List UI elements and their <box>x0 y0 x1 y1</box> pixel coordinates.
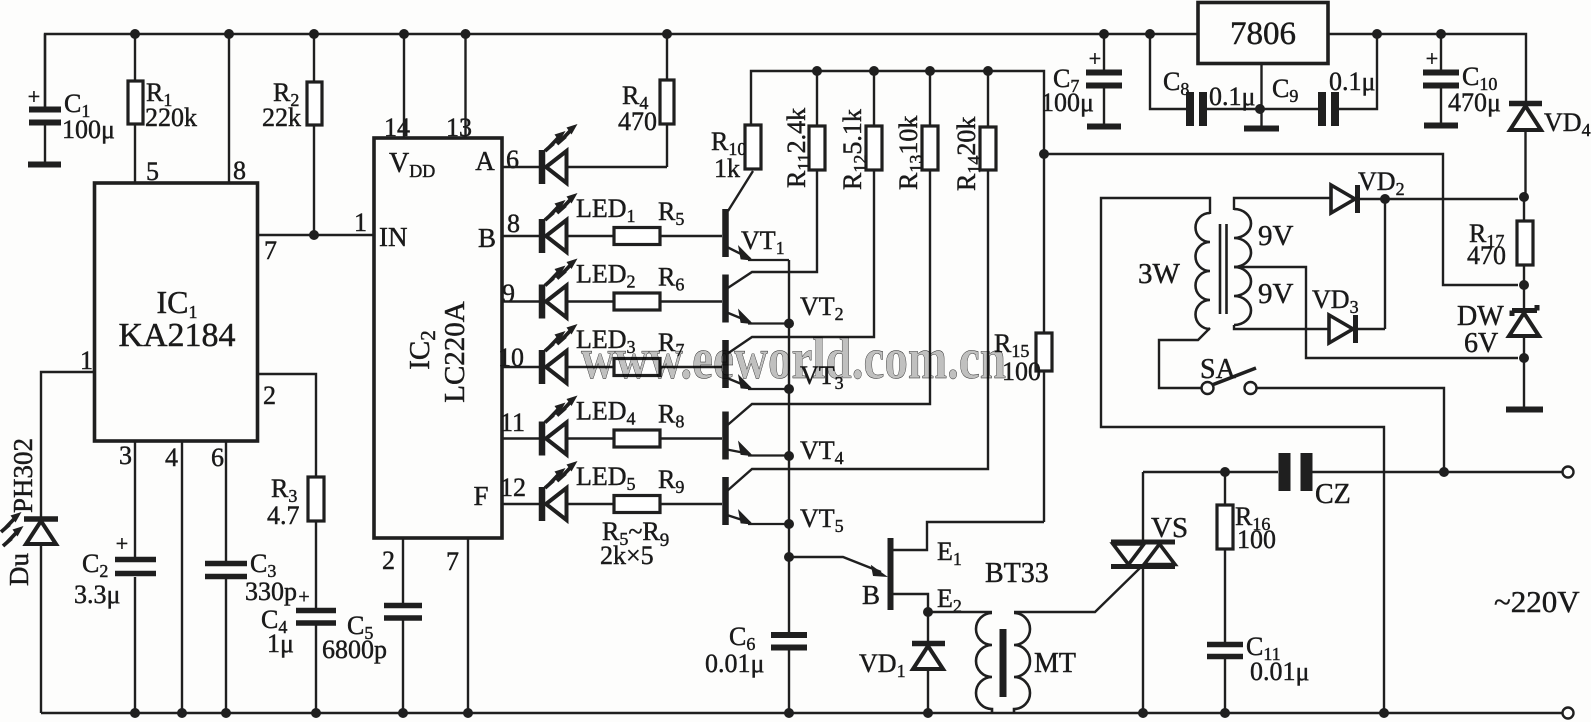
wire common emitter line of VT1-VT5 <box>784 260 794 632</box>
pin 2 of IC1 <box>263 381 276 410</box>
wire IC2 pin14 to top rail <box>403 34 405 138</box>
diode VD1 <box>859 607 945 713</box>
wire R15 rail to R17/DW node <box>1044 154 1518 285</box>
wire IC2 pin7 to ground rail <box>467 538 469 713</box>
svg-text:4: 4 <box>165 443 178 472</box>
wire IC1 pin2 to R3 <box>258 374 316 477</box>
pin 7 of IC2 <box>446 547 459 576</box>
svg-text:+: + <box>1089 46 1101 71</box>
resistor R11 2.4k <box>782 71 825 188</box>
resistor R9 <box>567 465 723 513</box>
capacitor C1 100u electrolytic <box>28 34 115 165</box>
LED LED1 <box>502 193 636 253</box>
wire resistor bank supply rail <box>751 66 1044 154</box>
svg-text:220k: 220k <box>145 103 197 132</box>
resistor R14 20k <box>952 71 996 191</box>
pin 6 of IC1 <box>211 443 224 472</box>
diode VD2 <box>1331 167 1518 213</box>
svg-text:IN: IN <box>379 222 408 252</box>
label R5~R9 2k x5 <box>600 517 669 570</box>
capacitor C7 100u electrolytic <box>1041 34 1122 127</box>
svg-text:R1310k: R1310k <box>894 116 926 190</box>
resistor R1 220k <box>128 34 197 183</box>
svg-text:22k: 22k <box>262 103 301 132</box>
transformer core <box>1220 224 1227 314</box>
wire IC1 pin4 to ground rail <box>181 441 183 713</box>
svg-text:7806: 7806 <box>1230 16 1296 52</box>
svg-text:3W: 3W <box>1138 258 1181 290</box>
pin 8 of IC1 <box>233 156 246 185</box>
thyristor VS triac <box>1111 472 1188 713</box>
capacitor C6 0.01u <box>705 622 807 713</box>
svg-text:6800p: 6800p <box>322 635 387 664</box>
pin 10 of IC2 <box>498 343 524 372</box>
svg-text:14: 14 <box>384 113 410 142</box>
wire top supply rail left of 7806 <box>45 34 1198 110</box>
svg-text:470: 470 <box>618 107 657 136</box>
svg-text:CZ: CZ <box>1315 479 1351 510</box>
svg-text:7: 7 <box>264 236 277 265</box>
svg-text:+: + <box>28 84 40 109</box>
pin 1 of IC1 <box>80 346 93 375</box>
svg-text:470: 470 <box>1467 241 1506 270</box>
pin 14 of IC2 <box>384 113 410 142</box>
zener DW 6V <box>1457 301 1539 407</box>
pin 2 of IC2 <box>382 546 395 575</box>
svg-text:Du: Du <box>4 553 34 586</box>
svg-text:+: + <box>116 531 128 556</box>
capacitor C9 0.1u <box>1261 34 1377 126</box>
LED LED2 <box>502 259 636 319</box>
resistor R12 5.1k <box>838 71 882 190</box>
pin 12 of IC2 <box>500 473 526 502</box>
svg-text:A: A <box>475 146 495 176</box>
wire SA to CZ line <box>1257 388 1445 472</box>
capacitor C3 330p <box>205 549 297 606</box>
wire IC1 pin8 to top rail <box>228 34 230 183</box>
resistor R8 <box>567 400 723 448</box>
transistor VT2 <box>726 170 844 324</box>
pin 3 of IC1 <box>119 441 132 470</box>
LED A-segment (pin 6) <box>502 124 667 184</box>
resistor R7 <box>567 328 723 376</box>
pin 8 of IC2 <box>507 209 520 238</box>
transformer secondary 9V upper <box>1234 209 1294 267</box>
label Du (rotated) <box>4 553 34 586</box>
svg-text:PH302: PH302 <box>8 438 38 513</box>
op-amp IC1 KA2184 box <box>95 183 258 441</box>
svg-text:2: 2 <box>263 381 276 410</box>
svg-text:VS: VS <box>1151 512 1188 544</box>
svg-text:R1420k: R1420k <box>952 117 984 191</box>
wire secondary top to VD2 <box>1234 198 1331 210</box>
svg-text:www.eeworld.com.cn: www.eeworld.com.cn <box>581 326 1006 391</box>
svg-text:BT33: BT33 <box>985 558 1049 589</box>
svg-text:+: + <box>1426 46 1438 71</box>
svg-text:12: 12 <box>500 473 526 502</box>
transistor VT1 <box>726 171 790 260</box>
ground 7806 <box>1244 64 1279 129</box>
pin 1 of IC2 <box>354 208 367 237</box>
svg-text:1μ: 1μ <box>267 629 294 658</box>
capacitor C10 470u electrolytic <box>1423 34 1501 126</box>
label ~220V <box>1494 584 1580 619</box>
diode VD3 <box>1312 285 1385 343</box>
svg-text:11: 11 <box>500 408 525 437</box>
pin 9 of IC2 <box>502 279 515 308</box>
wire primary bottom to switch SA <box>1159 328 1210 388</box>
svg-text:1: 1 <box>80 346 93 375</box>
resistor R2 22k <box>262 34 322 235</box>
LED LED5 <box>502 461 636 521</box>
LED LED4 <box>502 396 636 456</box>
node VD2/VD3 cathode junction <box>1380 194 1390 329</box>
resistor R6 <box>567 263 723 311</box>
svg-text:6: 6 <box>506 145 519 174</box>
svg-text:470μ: 470μ <box>1448 88 1501 117</box>
svg-text:100μ: 100μ <box>1041 88 1094 117</box>
svg-text:9V: 9V <box>1258 220 1294 252</box>
svg-text:6: 6 <box>211 443 224 472</box>
pin 11 of IC2 <box>500 408 525 437</box>
svg-text:LC220A: LC220A <box>439 301 471 403</box>
regulator 7806 <box>1198 3 1328 64</box>
node top rail junction dots <box>130 29 1155 39</box>
svg-text:3: 3 <box>119 441 132 470</box>
resistor R13 10k <box>894 71 938 190</box>
wire IC2 pin2 to C5 to ground rail <box>402 538 404 713</box>
svg-text:SA: SA <box>1200 354 1237 385</box>
resistor R10 1k <box>711 125 761 183</box>
svg-text:13: 13 <box>446 113 472 142</box>
svg-text:9: 9 <box>502 279 515 308</box>
capacitor C11 0.01u <box>1207 632 1309 713</box>
transistor VT5 <box>726 170 989 536</box>
svg-text:0.1μ: 0.1μ <box>1329 67 1375 96</box>
capacitor C5 6800p <box>322 606 422 665</box>
svg-text:4.7: 4.7 <box>267 501 300 530</box>
resistor R15 100 <box>994 149 1052 522</box>
svg-text:5: 5 <box>146 157 159 186</box>
svg-text:B: B <box>478 223 496 253</box>
svg-text:0.01μ: 0.01μ <box>1250 657 1309 686</box>
transistor VT3 <box>726 170 875 393</box>
resistor R5 <box>567 197 723 245</box>
pin 6 of IC2 <box>506 145 519 174</box>
svg-text:330p: 330p <box>245 577 297 606</box>
diode VD4 <box>1509 104 1591 198</box>
photodiode Du PH302 <box>24 519 58 713</box>
wire IC1 pin7 to IC2 IN with R2 junction <box>258 230 374 240</box>
wire 7806 output rail <box>1328 29 1526 101</box>
transformer MT <box>928 612 1076 712</box>
capacitor C2 3.3u <box>74 531 156 609</box>
capacitor C8 0.1u <box>1150 34 1260 126</box>
wire IC1 pin1 to photodiode <box>41 372 95 517</box>
svg-text:R112.4k: R112.4k <box>782 108 814 188</box>
svg-text:1k: 1k <box>714 154 740 183</box>
pin 7 of IC1 <box>264 236 277 265</box>
svg-text:100μ: 100μ <box>62 115 115 144</box>
wire IC1 pin6 to C3 to ground rail <box>225 441 227 713</box>
transformer T1 3W primary <box>1138 213 1210 329</box>
svg-text:1: 1 <box>354 208 367 237</box>
svg-text:9V: 9V <box>1258 278 1294 310</box>
ground below DW <box>1506 407 1543 413</box>
transistor VT4 <box>726 170 931 468</box>
wire VS to CZ socket line <box>1143 467 1278 477</box>
svg-text:100: 100 <box>1002 357 1041 386</box>
svg-text:3.3μ: 3.3μ <box>74 580 120 609</box>
svg-text:MT: MT <box>1034 648 1076 679</box>
wire primary top loop to mains <box>1101 198 1384 713</box>
connector CZ <box>1285 453 1351 510</box>
op-amp IC2 LC220A box <box>374 138 502 538</box>
svg-text:8: 8 <box>507 209 520 238</box>
svg-text:+: + <box>298 586 309 608</box>
label PH302 (rotated) <box>8 438 38 513</box>
resistor R17 470 <box>1467 192 1533 309</box>
resistor R16 100 <box>1217 472 1276 642</box>
capacitor C4 1u electrolytic <box>261 586 336 713</box>
svg-text:100: 100 <box>1237 525 1276 554</box>
node AC terminal upper <box>1563 467 1574 478</box>
svg-text:R125.1k: R125.1k <box>838 109 870 190</box>
wire CZ to AC terminal <box>1311 467 1563 477</box>
switch SA <box>1200 354 1257 394</box>
wire MT secondary to VS gate <box>1014 568 1140 612</box>
svg-text:B: B <box>862 580 880 610</box>
pin 13 of IC2 <box>446 113 472 142</box>
resistor R4 470 <box>618 34 674 167</box>
wire IC2 pin13 to top rail <box>464 34 466 138</box>
svg-text:0.01μ: 0.01μ <box>705 649 764 678</box>
light arrows into photodiode <box>1 512 24 546</box>
LED LED3 <box>502 324 636 384</box>
resistor R3 4.7 <box>267 474 324 608</box>
wire center tap to DW <box>1234 267 1518 358</box>
svg-text:6V: 6V <box>1464 328 1498 359</box>
svg-text:2: 2 <box>382 546 395 575</box>
svg-text:8: 8 <box>233 156 246 185</box>
transistor BT33 unijunction <box>789 522 1049 616</box>
svg-text:0.1μ: 0.1μ <box>1209 82 1255 111</box>
pin 5 of IC1 <box>146 157 159 186</box>
svg-text:F: F <box>473 481 488 511</box>
svg-text:~220V: ~220V <box>1494 584 1580 619</box>
wire secondary bottom to VD3 <box>1234 325 1329 329</box>
svg-text:2k×5: 2k×5 <box>600 541 654 570</box>
pin 4 of IC1 <box>165 443 178 472</box>
wire ground bottom rail <box>41 708 1563 718</box>
svg-text:KA2184: KA2184 <box>118 317 235 354</box>
svg-text:7: 7 <box>446 547 459 576</box>
transformer secondary 9V lower <box>1234 267 1294 325</box>
node AC terminal lower <box>1563 708 1574 719</box>
wire IC1 pin3 to C2 to ground rail <box>134 441 136 713</box>
